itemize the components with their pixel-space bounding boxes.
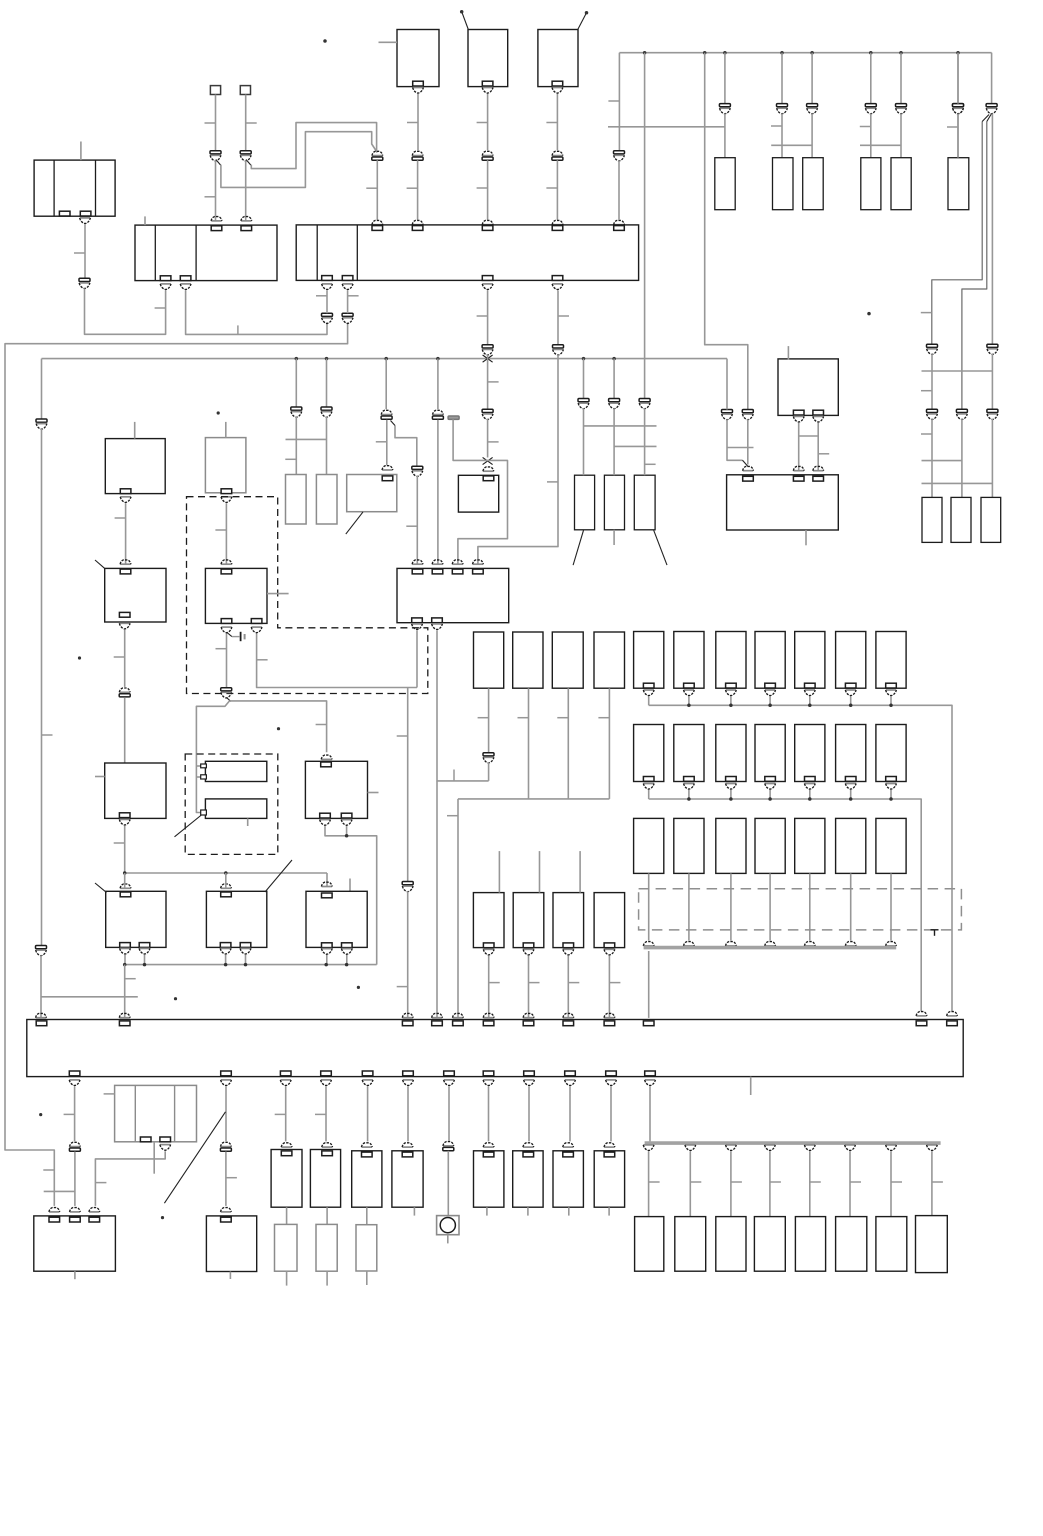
wire BA down	[417, 94, 419, 150]
terminal bigbox b10	[565, 1071, 576, 1076]
wire BZ4 stub	[527, 1207, 529, 1215]
tick A1	[155, 307, 166, 309]
terminal grid r1c3	[726, 683, 737, 688]
cup BL-b2	[813, 416, 824, 422]
fuse GY1	[275, 1224, 298, 1271]
cup BZ1	[361, 1143, 372, 1147]
terminal B2-b1	[160, 276, 171, 281]
wire A2 link	[186, 290, 327, 334]
cup BY1	[281, 1143, 292, 1147]
wire 958 upper	[957, 53, 959, 104]
wire BX stub	[229, 1272, 231, 1280]
tick BB1	[477, 122, 488, 124]
component box BZ4	[513, 1151, 543, 1207]
wire BD top stub	[134, 422, 136, 439]
wire FM3 down	[567, 688, 569, 799]
wire 932 mid	[931, 354, 933, 409]
tick A2 vert	[237, 325, 239, 334]
terminal BI-b1	[412, 618, 423, 623]
wire box3-b2 left rail	[5, 323, 348, 1206]
wire BF down	[225, 503, 227, 564]
wire STU s1	[124, 955, 126, 965]
connector pair P31	[987, 344, 998, 354]
terminal BZ3-t	[483, 1152, 494, 1157]
terminal bigbox b2	[221, 1071, 232, 1076]
cup FN2	[523, 949, 534, 955]
terminal grid r1c6	[845, 683, 856, 688]
wire BK bottom stub	[805, 530, 807, 545]
wire 557 lower	[478, 355, 558, 565]
cup grid r1c1	[643, 690, 654, 696]
wire bigbox stub	[750, 1077, 752, 1095]
tick 557b	[547, 481, 558, 483]
stray dot d2	[460, 10, 464, 14]
cup BW-t3	[89, 1208, 100, 1212]
tick BD wire	[115, 517, 126, 519]
terminal BU-b1	[322, 943, 333, 948]
tick 557a	[558, 315, 569, 317]
wire grid3 main	[648, 951, 650, 1018]
wire FN3 down	[567, 956, 569, 1018]
connector pair P33	[119, 688, 130, 697]
cup grid r2c2	[684, 784, 695, 790]
cup grid r1c5	[804, 690, 815, 696]
terminal BU-t	[322, 893, 333, 898]
junction busA2	[224, 871, 228, 875]
cup grid r1c2	[684, 690, 695, 696]
cup bigbox b3	[280, 1080, 291, 1086]
tick bb4	[315, 1113, 326, 1115]
terminal B2-b2	[180, 276, 191, 281]
connector pair P28	[927, 344, 938, 354]
wire BM down	[124, 826, 126, 873]
wire 326 down	[326, 359, 328, 407]
connector pair P23	[482, 345, 493, 355]
terminal bigbox t5	[453, 1021, 464, 1026]
fuse F3	[803, 158, 824, 210]
callout FG3c	[654, 530, 667, 565]
terminal bigbox b1	[69, 1071, 80, 1076]
cup B3-b1	[322, 284, 333, 290]
component box BF	[205, 438, 246, 493]
wire BQ link	[196, 777, 200, 813]
tick w1	[205, 122, 216, 124]
pigtail BGb1	[227, 633, 232, 637]
component box BB	[468, 30, 508, 87]
wire grid r1c6	[850, 697, 852, 706]
callout BE	[95, 560, 105, 568]
tick 95	[95, 1182, 106, 1184]
wire link 608	[608, 126, 725, 128]
cup bigbox b5	[362, 1080, 373, 1086]
connector pair P1	[210, 151, 221, 161]
terminal bigbox b9	[524, 1071, 535, 1076]
terminal BK-t3	[813, 476, 824, 481]
wire BL-b1 down	[798, 423, 800, 471]
terminal BV-b1	[140, 1137, 151, 1142]
connector pair P26	[722, 410, 733, 420]
component grid r2c5	[795, 725, 825, 782]
junction grid2 c5	[808, 797, 812, 801]
wire 437 upper	[437, 359, 439, 410]
tick B3b1	[316, 295, 327, 297]
wire BO right stub	[368, 792, 379, 794]
wire BV link	[95, 1151, 165, 1206]
wire STU s2	[144, 955, 146, 965]
component bottom row c8	[916, 1216, 948, 1273]
component box BZ3	[474, 1151, 504, 1207]
wire 407 lower	[407, 891, 409, 1018]
component grid r2c1	[634, 725, 664, 782]
wire 487 lower	[487, 419, 489, 458]
callout BQ	[175, 815, 202, 837]
terminal BK-t1	[743, 476, 754, 481]
cup bigbox t9	[604, 1013, 615, 1017]
component bottom row c1	[635, 1217, 664, 1272]
wire STU t1	[225, 955, 227, 965]
cup BZ6	[604, 1143, 615, 1147]
wire bb1 down	[74, 1086, 76, 1141]
tick bar2 c1	[649, 1181, 660, 1183]
tie 583	[584, 425, 657, 427]
pigtail P34	[227, 698, 232, 702]
wire 296 lower	[295, 417, 297, 475]
fuse FR2	[951, 497, 971, 542]
fuse F4	[861, 158, 881, 210]
wire 437 lower	[437, 420, 439, 564]
terminal BI-t1	[412, 569, 423, 574]
cup B2-b2	[180, 284, 191, 290]
wire GY1 tail	[286, 1271, 288, 1285]
tie 727	[727, 447, 754, 449]
terminal bigbox t2	[119, 1021, 130, 1026]
terminal BW-t3	[89, 1217, 100, 1222]
cup bigbox t7	[523, 1013, 534, 1017]
tick rail54	[43, 1169, 54, 1171]
cup BT-b1	[220, 948, 231, 954]
wire bb10 down	[569, 1086, 571, 1141]
stray dot d10	[39, 1113, 42, 1116]
wire branch 417	[395, 426, 417, 467]
wire grid r2c2	[688, 790, 690, 799]
cup BK-t3	[813, 466, 824, 470]
connector pair P17	[381, 410, 392, 419]
wire BU stub	[349, 879, 351, 892]
wire 727 lower	[727, 419, 743, 460]
wire grid r2c5	[809, 790, 811, 799]
component box BX	[206, 1216, 256, 1272]
cup FN3	[563, 949, 574, 955]
terminal BI-t2	[432, 569, 443, 574]
glyph T mark	[931, 930, 939, 936]
wire bb8 down	[488, 1086, 490, 1141]
component bottom row c7	[876, 1217, 907, 1272]
connector pair P5	[412, 151, 423, 160]
tick P7	[546, 187, 557, 189]
wire BB down	[487, 94, 489, 150]
wire 991 top	[991, 53, 993, 104]
wire BF top stub	[225, 422, 227, 438]
junction bus-g	[899, 51, 903, 55]
connector pair fuse a	[719, 104, 730, 114]
wire BZ1 down	[366, 1207, 368, 1225]
component box BV	[115, 1085, 197, 1141]
component box BD	[105, 439, 165, 494]
wire BZ6 stub	[608, 1207, 610, 1215]
wire BZ3 stub	[486, 1207, 488, 1215]
cup bigbox t8	[563, 1013, 574, 1017]
cup BW-t1	[49, 1208, 60, 1212]
tick BGb1	[216, 648, 227, 650]
cup BZ5	[563, 1143, 574, 1147]
junction bus-e	[810, 51, 814, 55]
component box BZ6	[594, 1151, 624, 1207]
cup bigbox t4	[432, 1013, 443, 1017]
junction grid1 c6	[849, 704, 853, 708]
connector pair P7	[552, 151, 563, 160]
component bottom row c2	[675, 1217, 706, 1272]
cup B2-t1	[211, 217, 222, 221]
wire grid r2c7	[890, 790, 892, 799]
terminal BW-t1	[49, 1217, 60, 1222]
fuse FR1	[922, 497, 942, 542]
connector bar BR1	[448, 416, 459, 419]
wire FN2 stub	[539, 851, 541, 893]
connector pair fuse c	[807, 104, 818, 114]
connector pair P22	[639, 399, 650, 409]
junction bus437	[436, 357, 440, 361]
cup bigbox t3	[402, 1013, 413, 1017]
fuse GY2	[316, 1224, 337, 1271]
fuse FM4	[594, 632, 625, 688]
cup BU-b2	[341, 949, 352, 955]
component grid r1c7	[876, 632, 906, 689]
stray dot d6	[78, 656, 81, 659]
wire 407 long	[407, 688, 409, 882]
terminal FN3-b	[563, 943, 574, 948]
junction bus-d	[780, 51, 784, 55]
cup bigbox b2	[221, 1080, 232, 1086]
wire 437 tail	[436, 781, 438, 1018]
junction bus614	[612, 357, 616, 361]
cup BI-t4	[473, 560, 484, 564]
tick 125	[125, 978, 136, 980]
wire BV t1 stub	[153, 1142, 155, 1174]
tick 407a	[397, 735, 408, 737]
connector pair P35	[402, 882, 413, 892]
dashed box grid	[639, 889, 962, 930]
cup grid r2c7	[886, 784, 897, 790]
cup BA	[413, 88, 424, 94]
component box BS	[106, 891, 166, 947]
connector pair P27	[742, 410, 753, 420]
cup BS-b1	[120, 948, 131, 954]
component box BO	[305, 761, 367, 818]
terminal BG-t	[221, 569, 232, 574]
component grid r3c5	[795, 818, 825, 873]
terminal BC	[552, 81, 563, 86]
junction bus-f	[869, 51, 873, 55]
terminal BL-b2	[813, 410, 824, 415]
cup BY2	[322, 1143, 333, 1147]
terminal BI-t3	[452, 569, 463, 574]
terminal grid r1c1	[643, 683, 654, 688]
wire bb5 down	[367, 1086, 369, 1141]
callout BT	[265, 860, 292, 892]
cup grid r1c7	[886, 690, 897, 696]
cup BD-b	[120, 497, 131, 503]
terminal BZ5-t	[563, 1152, 574, 1157]
terminal grid r2c4	[765, 777, 776, 782]
wire BIb1 down	[416, 631, 418, 688]
fuse mid FG3b	[604, 475, 624, 530]
terminal grid r1c4	[765, 683, 776, 688]
wire grid r3c2	[688, 873, 690, 940]
wire BZ2 stub	[413, 1207, 415, 1215]
cup grid r2c1	[643, 784, 654, 790]
wire horn tail	[447, 1235, 449, 1244]
stray dot d4	[867, 312, 871, 316]
fuse F2	[773, 158, 794, 210]
wire P5 down	[417, 160, 419, 220]
terminal bigbox b8	[483, 1071, 494, 1076]
wire grid r1c2	[688, 697, 690, 706]
cup BK-t2	[793, 466, 804, 470]
fuse F1	[715, 158, 735, 210]
tick 619	[608, 100, 619, 102]
wire BC down	[556, 94, 558, 150]
node square S1	[210, 86, 220, 95]
cup box3-t3	[482, 220, 493, 224]
wire bb7 down	[448, 1086, 450, 1140]
tick FN1	[489, 982, 500, 984]
component box BK	[727, 475, 839, 530]
wire fusecol d lower	[870, 114, 872, 158]
cup B2-b1	[160, 284, 171, 290]
wire fusecol c lower	[811, 114, 813, 158]
node square S2	[240, 86, 250, 95]
wire BO-b1	[325, 826, 377, 965]
wire link 782-812	[771, 144, 812, 146]
cup box3-t5	[614, 220, 625, 224]
cup BI-b2	[432, 624, 443, 630]
connector pair P19	[432, 410, 443, 419]
junction busB6	[345, 963, 349, 967]
cup grid r2c4	[765, 784, 776, 790]
connector pair P12	[36, 946, 47, 956]
wire bar2 c1	[648, 1151, 650, 1216]
wire BY1 down	[286, 1207, 288, 1224]
tick BL	[818, 453, 829, 455]
cup bigbox g2	[916, 1012, 927, 1016]
component grid r3c3	[716, 818, 746, 873]
wire link 870-901	[860, 144, 901, 146]
tick bar2 c6	[850, 1181, 861, 1183]
bus grid1	[649, 705, 952, 1011]
wire BO-b2	[346, 826, 348, 836]
fuse FN1	[473, 893, 504, 948]
wire BA left stub	[379, 41, 398, 43]
terminal B3-b4	[552, 276, 563, 281]
wire busA to BU	[326, 873, 328, 886]
terminal bigbox t6	[483, 1021, 494, 1026]
wire 417 down	[416, 476, 418, 564]
terminal B3-b1	[322, 276, 333, 281]
wire S1 down	[215, 95, 217, 151]
tick FM bus vert	[453, 770, 455, 781]
wire bb11 down	[610, 1086, 612, 1141]
component grid r1c5	[795, 632, 825, 689]
wire BQ stub	[247, 818, 249, 826]
wire fusecol b	[781, 53, 783, 104]
tie 932-992b	[922, 482, 993, 484]
wire grid r3c7	[890, 873, 892, 940]
component box BY2	[310, 1150, 340, 1208]
component grid r1c3	[716, 632, 746, 689]
cup bigbox b10	[565, 1080, 576, 1086]
tick box1 wire	[74, 252, 85, 254]
cup B2-t2	[241, 217, 252, 221]
wire 326 lower	[326, 417, 328, 475]
junction busB5	[324, 963, 328, 967]
terminal BI-b2	[432, 618, 443, 623]
wire fusecol c	[811, 53, 813, 104]
terminal bigbox b5	[362, 1071, 373, 1076]
terminal bigbox t7	[523, 1021, 534, 1026]
cup bar2 c3	[726, 1145, 737, 1151]
cup B3-b4	[552, 284, 563, 290]
fuse FG1	[286, 475, 307, 525]
connector pair P8	[614, 151, 625, 161]
cup BJ-t	[382, 466, 393, 470]
junction bus-b	[703, 51, 707, 55]
terminal BZ6-t	[604, 1152, 615, 1157]
cup BL-b1	[793, 416, 804, 422]
component bottom row c6	[836, 1217, 867, 1272]
cup bar2 c5	[804, 1145, 815, 1151]
fuse FM1	[474, 632, 504, 688]
connector pair FM1	[483, 753, 494, 763]
junction grid2 c4	[768, 797, 772, 801]
wire FN1 stub	[498, 851, 500, 893]
cup horn	[443, 1142, 454, 1146]
stray dot d5	[217, 411, 220, 414]
component grid r1c2	[674, 632, 704, 689]
tick BM	[114, 842, 125, 844]
junction grid1 c2	[687, 704, 691, 708]
tick 326b	[316, 724, 327, 726]
pigtail P17	[391, 421, 396, 426]
connector pair P10	[986, 104, 997, 114]
terminal bigbox t4	[432, 1021, 443, 1026]
cup grid r3c7	[886, 942, 897, 946]
cup BU-b1	[321, 949, 332, 955]
junction grid1 c3	[729, 704, 733, 708]
tick FN3	[568, 982, 579, 984]
terminal BH-t	[483, 476, 494, 481]
connector pair P15	[291, 407, 302, 417]
wire 619 down	[618, 53, 620, 151]
wire GZ1 tail	[366, 1271, 368, 1285]
cup BG-b2	[251, 627, 262, 633]
junction busB3	[224, 963, 228, 967]
wire bb3 down	[285, 1086, 287, 1141]
terminal grid r2c3	[726, 777, 737, 782]
cup BS-t	[120, 884, 131, 888]
bus rail41 upper	[41, 359, 43, 419]
ground symbol	[232, 632, 245, 641]
wire fusecol b lower	[781, 114, 783, 158]
